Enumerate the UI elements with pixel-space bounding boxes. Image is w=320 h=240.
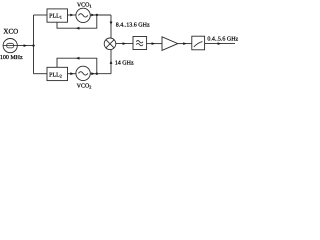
arrowhead left: [76, 27, 80, 30]
filter F2 box: [192, 36, 205, 50]
svg-text:PLL2: PLL2: [49, 72, 62, 78]
arrowhead right: [91, 14, 95, 17]
wire VCO2 output: [90, 73, 111, 75]
wire up to mixer: [110, 50, 112, 74]
svg-text:100 MHz: 100 MHz: [0, 55, 23, 61]
oscillator XCO: [3, 39, 17, 53]
wire XCO output: [17, 45, 33, 47]
amplifier triangle: [162, 37, 178, 51]
arrowhead right: [123, 42, 127, 45]
arrowhead down: [110, 22, 113, 26]
wire PLL2 to VCO2: [68, 73, 76, 75]
node junction dot: [96, 14, 98, 16]
arrowhead right: [218, 42, 222, 45]
wire to PLL2: [34, 73, 48, 75]
wire filter1 to amp: [147, 43, 162, 45]
svg-text:XCO: XCO: [3, 28, 18, 36]
arrowhead right: [24, 44, 28, 47]
PLL1 box: [47, 9, 68, 22]
wire to PLL1: [34, 14, 48, 16]
oscillator VCO1: [76, 8, 90, 22]
svg-text:14 GHz: 14 GHz: [115, 60, 134, 66]
arrowhead up: [110, 60, 113, 64]
PLL2 box: [47, 67, 68, 80]
wire PLL1 to VCO1: [68, 14, 76, 16]
svg-text:VCO1: VCO1: [77, 2, 92, 8]
arrowhead right: [70, 72, 74, 75]
svg-text:VCO2: VCO2: [77, 84, 92, 90]
wire mixer to filter1: [116, 43, 133, 45]
arrowhead right: [183, 42, 187, 45]
arrowhead right: [70, 14, 74, 17]
filter F1 box: [133, 37, 147, 50]
svg-text:8.4..13.6 GHz: 8.4..13.6 GHz: [116, 23, 150, 29]
wire trunk vertical: [33, 15, 35, 74]
wire output: [205, 43, 235, 45]
arrowhead right: [152, 42, 156, 45]
mixer: [104, 38, 116, 50]
arrowhead left: [76, 57, 80, 60]
oscillator VCO2: [76, 66, 90, 80]
node junction dot: [32, 44, 34, 46]
node junction dot: [96, 73, 98, 75]
wire amp to filter2: [178, 43, 192, 45]
arrowhead right: [91, 72, 95, 75]
wire down to mixer: [110, 15, 112, 38]
svg-text:0.4..5.6 GHz: 0.4..5.6 GHz: [207, 36, 238, 42]
wire feedback bottom: [57, 58, 97, 73]
wire feedback top: [57, 15, 97, 28]
crystal symbol inside XCO: [3, 43, 17, 48]
svg-text:PLL1: PLL1: [49, 14, 62, 20]
wire VCO1 output: [90, 14, 111, 16]
